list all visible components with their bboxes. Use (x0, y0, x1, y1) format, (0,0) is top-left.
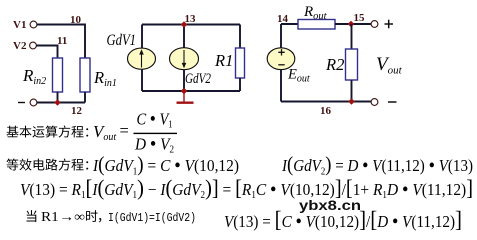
wire V1 to node 10 (37, 25, 85, 59)
svg-text:V1: V1 (13, 19, 26, 31)
svg-text:15: 15 (354, 12, 366, 24)
svg-text:ybx8.cn: ybx8.cn (299, 197, 361, 213)
junction dot node 13 (181, 21, 188, 28)
svg-text:C • V1: C • V1 (137, 109, 173, 131)
resistor Rin2 (53, 58, 63, 92)
wire output bottom (281, 101, 371, 103)
voltage source Eout (267, 48, 295, 70)
wire node15 down to R2 (351, 24, 353, 49)
svg-text:11: 11 (57, 35, 67, 47)
junction dot node 12 (54, 99, 61, 106)
terminal circle V2 (30, 42, 37, 49)
svg-text:R1: R1 (214, 51, 233, 70)
wire Rin1 bottom stem (84, 92, 86, 103)
svg-text:V2: V2 (13, 40, 27, 52)
wire middle box bottom (142, 90, 240, 92)
terminal circle + output (371, 21, 378, 28)
svg-text:GdV2: GdV2 (185, 71, 211, 87)
wire GdV2 bottom (183, 70, 185, 91)
svg-text:16: 16 (320, 105, 332, 117)
wire V2 to node 11 (37, 46, 58, 59)
terminal circle - output (371, 99, 378, 106)
wire GdV1 bottom (141, 69, 143, 91)
junction dot middle bottom (181, 88, 188, 95)
terminal circle V1 (30, 21, 37, 28)
minus sign of input port (18, 102, 25, 104)
svg-text:I(GdV1) = C • V(10,12): I(GdV1) = C • V(10,12) (92, 152, 239, 178)
plus sign output (385, 20, 394, 29)
ground (177, 91, 194, 103)
equation row 1 label (Chinese) (6, 126, 88, 138)
svg-text:=: = (120, 121, 129, 140)
current source GdV1 (128, 48, 156, 69)
svg-text:R2: R2 (325, 55, 344, 74)
svg-text:GdV1: GdV1 (107, 32, 137, 49)
wire Rin2 bottom stem (57, 92, 59, 103)
resistor Rout (298, 20, 335, 30)
equation row 2 label (Chinese) (6, 159, 88, 171)
current source GdV2 (170, 48, 199, 70)
wire middle box left (141, 25, 143, 49)
wire middle box right top (239, 25, 241, 49)
wire R2 down (351, 80, 353, 102)
svg-text:R1→∞: R1→∞ (41, 209, 85, 224)
junction dot node 16 (348, 98, 355, 105)
wire Rout to + terminal (335, 23, 371, 25)
terminal circle input common (30, 99, 37, 106)
wire node 13 drop (183, 25, 185, 49)
resistor R2 (346, 49, 358, 80)
svg-text:I(GdV1)=I(GdV2): I(GdV1)=I(GdV2) (108, 212, 196, 225)
wire Eout down to bottom (280, 70, 282, 102)
wire node14 to Rout (281, 23, 298, 25)
resistor Rin1 (80, 58, 90, 92)
svg-text:I(GdV2) = D • V(11,12) • V(13): I(GdV2) = D • V(11,12) • V(13) (281, 152, 473, 178)
junction dot node 15 (348, 21, 355, 28)
wire node14 down to Eout (280, 24, 282, 48)
wire bottom common node 12 (37, 102, 85, 104)
equation row 4 left (Chinese + mono) (26, 210, 36, 222)
wire middle box top (142, 24, 240, 26)
svg-text:13: 13 (185, 13, 197, 25)
resistor R1 (236, 48, 245, 78)
wire R1 bottom (239, 78, 241, 91)
svg-text:12: 12 (71, 105, 83, 117)
svg-text:10: 10 (70, 14, 82, 26)
minus sign output (388, 101, 397, 103)
